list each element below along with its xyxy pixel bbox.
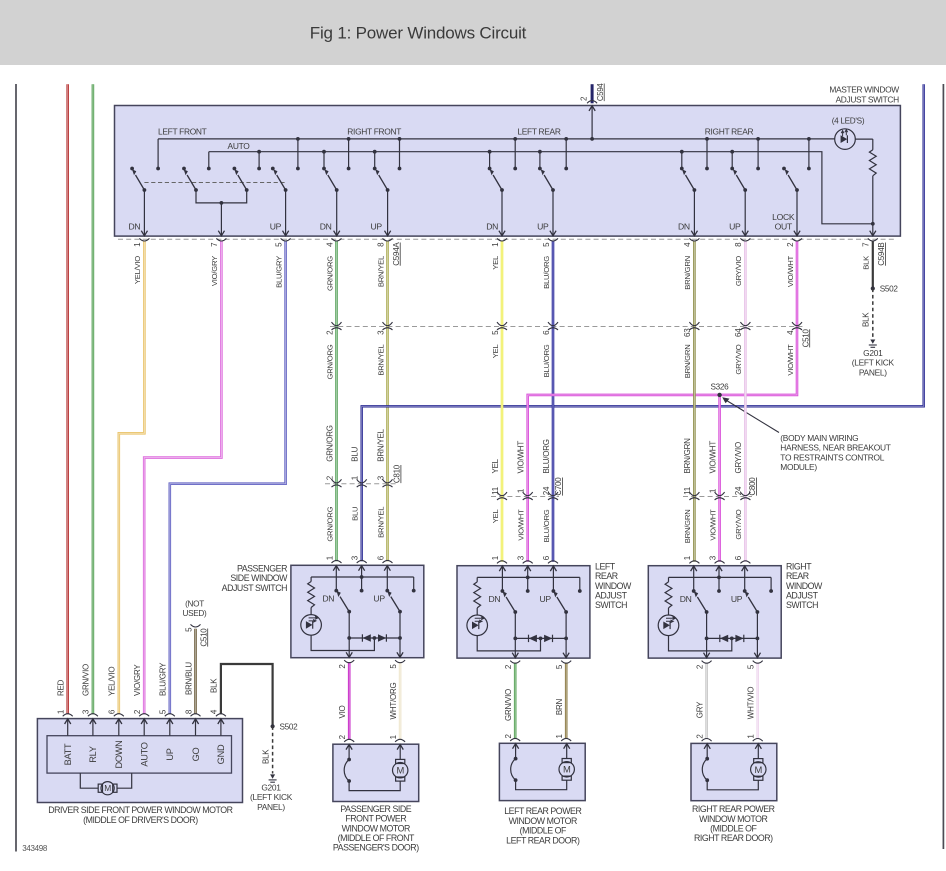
svg-text:2: 2 <box>695 734 704 739</box>
svg-text:6: 6 <box>108 709 117 714</box>
svg-text:6: 6 <box>542 330 551 335</box>
driver motor inner module box <box>47 736 232 773</box>
right rear power window motor box <box>691 743 777 800</box>
contact stub from AUTO bus at x=374.7 <box>374 152 376 169</box>
svg-text:UP: UP <box>270 221 282 231</box>
svg-text:24: 24 <box>542 486 551 495</box>
svg-text:2: 2 <box>504 664 513 669</box>
contact stub from feed bus at x=515.2 <box>514 139 516 169</box>
svg-text:C510: C510 <box>199 628 208 647</box>
switch UP <box>553 591 568 614</box>
callout arrow to S326 <box>726 400 779 433</box>
connector C594 dashed row <box>118 238 897 240</box>
splice S326 <box>717 393 721 397</box>
svg-text:PASSENGER: PASSENGER <box>237 564 287 574</box>
pin 1 lead <box>566 743 568 758</box>
wire 2 C594 feed entry <box>591 84 594 103</box>
svg-text:C810: C810 <box>393 464 402 483</box>
pin 6 contact <box>744 566 746 591</box>
contact stub from AUTO bus at x=489.6 <box>489 152 491 169</box>
svg-text:S326: S326 <box>710 383 729 392</box>
svg-text:LEFT REAR: LEFT REAR <box>517 126 560 136</box>
svg-text:11: 11 <box>683 486 692 495</box>
driver motor M symbol <box>80 773 98 788</box>
svg-text:BRN/YEL: BRN/YEL <box>376 506 385 538</box>
contact stub from feed bus at x=348.6 <box>348 139 350 169</box>
diode left <box>363 634 371 641</box>
svg-text:ADJUST: ADJUST <box>786 591 819 601</box>
svg-text:BLU: BLU <box>351 446 360 461</box>
svg-text:YEL/VIO: YEL/VIO <box>133 256 142 284</box>
svg-text:DOWN: DOWN <box>114 740 124 768</box>
wire BLK dashed to ground G201 <box>872 289 874 339</box>
svg-text:BRN/GRN: BRN/GRN <box>683 438 692 474</box>
left rear window adjust switch box <box>457 566 590 658</box>
svg-text:(NOT: (NOT <box>185 600 204 609</box>
svg-text:1: 1 <box>491 242 500 247</box>
wire AUTO levers common output <box>196 190 247 203</box>
switch left front DN <box>132 169 148 236</box>
open contact at x=272.8 <box>271 167 275 171</box>
motor M <box>562 759 571 763</box>
passenger side front power window motor box <box>333 744 419 801</box>
connector C700 dashed row <box>491 496 559 498</box>
svg-text:ADJUST: ADJUST <box>595 591 628 601</box>
wire VIO/WHT splice S326 branch to right rear switch pin3 <box>718 395 721 562</box>
driver motor pin AUTO <box>143 719 145 736</box>
svg-text:PANEL): PANEL) <box>257 802 285 812</box>
svg-text:WINDOW MOTOR: WINDOW MOTOR <box>509 816 577 826</box>
svg-text:1: 1 <box>389 734 398 739</box>
svg-text:HARNESS, NEAR BREAKOUT: HARNESS, NEAR BREAKOUT <box>780 443 890 453</box>
svg-text:VIO/GRY: VIO/GRY <box>210 256 219 286</box>
svg-text:1: 1 <box>683 555 692 560</box>
diode left <box>720 635 728 642</box>
svg-text:(MIDDLE OF FRONT: (MIDDLE OF FRONT <box>338 833 415 843</box>
contact stub from feed bus at x=808.9 <box>808 139 810 169</box>
contact stub from AUTO bus at x=539.9 <box>539 152 541 169</box>
splice S502 (master) <box>871 286 875 290</box>
svg-text:BLK: BLK <box>261 749 270 764</box>
switch right rear DN <box>682 169 698 236</box>
open contact at x=784 <box>782 167 786 171</box>
driver motor pin RLY <box>92 719 94 736</box>
svg-text:UP: UP <box>729 221 741 231</box>
driver motor pin DOWN <box>118 719 120 736</box>
LED return to diode midpoint <box>311 635 374 650</box>
pin 2 lead and brush arc <box>706 743 708 758</box>
svg-text:4: 4 <box>210 709 219 714</box>
svg-text:2: 2 <box>325 475 334 480</box>
svg-text:3: 3 <box>82 709 91 714</box>
svg-text:VIO/GRY: VIO/GRY <box>133 664 142 696</box>
contact stub from feed bus at x=566.2 <box>565 139 567 169</box>
svg-text:RED: RED <box>57 679 66 696</box>
svg-text:YEL: YEL <box>491 458 500 473</box>
svg-text:(LEFT KICK: (LEFT KICK <box>250 792 293 802</box>
svg-text:M: M <box>563 764 571 775</box>
wire BLK master pin7 to splice S502 <box>872 241 874 289</box>
svg-text:REAR: REAR <box>595 571 618 581</box>
wire VIO/WHT master pin2 through S326 to left rear switch pin3 <box>528 241 797 562</box>
bus AUTO <box>209 152 873 224</box>
pin 5 output <box>756 612 758 658</box>
svg-text:(MIDDLE OF: (MIDDLE OF <box>520 826 567 836</box>
LED return to diode midpoint <box>669 636 732 651</box>
svg-text:4: 4 <box>786 330 795 335</box>
svg-text:1: 1 <box>747 734 756 739</box>
svg-text:YEL/VIO: YEL/VIO <box>108 667 117 696</box>
pin 3 common <box>361 565 363 590</box>
svg-text:G201: G201 <box>863 348 883 358</box>
header band <box>0 0 946 65</box>
ground G201 (left kick panel) <box>870 340 875 344</box>
internal common bus <box>311 576 414 578</box>
wire BLU passenger switch pin3 loop to master area <box>362 84 924 561</box>
svg-text:GRN/ORG: GRN/ORG <box>325 506 334 541</box>
wire BRN/GRN master pin4 to right rear switch pin1 <box>693 241 696 562</box>
wire BRN left rear switch pin5 to motor pin1 <box>565 663 568 739</box>
contact stub from AUTO bus at x=324 <box>323 152 325 169</box>
svg-text:2: 2 <box>338 664 347 669</box>
svg-text:G201: G201 <box>261 783 281 793</box>
pin 2 lead and brush arc <box>515 743 517 758</box>
svg-text:VIO/WHT: VIO/WHT <box>708 441 717 474</box>
switch left front UP <box>273 169 289 236</box>
switch DN <box>503 591 518 614</box>
svg-text:YEL: YEL <box>491 344 500 359</box>
diode right <box>378 634 386 641</box>
svg-text:5: 5 <box>389 664 398 669</box>
wire VIO passenger switch pin2 to motor pin2 <box>348 662 351 740</box>
wire RED battery feed <box>66 84 69 714</box>
svg-text:WHT/VIO: WHT/VIO <box>747 687 756 719</box>
open contact at x=132.1 <box>130 167 134 171</box>
svg-text:VIO/WHT: VIO/WHT <box>517 441 526 474</box>
svg-text:2: 2 <box>504 734 513 739</box>
diode row <box>515 637 566 639</box>
svg-text:GRY/VIO: GRY/VIO <box>734 256 743 286</box>
svg-text:OUT: OUT <box>775 221 793 231</box>
wire BRN/YEL master pin8 to passenger switch pin6 <box>386 241 389 561</box>
svg-text:GRN/ORG: GRN/ORG <box>325 425 334 462</box>
svg-text:VIO/WHT: VIO/WHT <box>786 344 795 376</box>
pin 1 contact <box>693 566 695 591</box>
svg-text:BRN/YEL: BRN/YEL <box>376 428 385 461</box>
switch left rear UP <box>541 169 557 236</box>
svg-text:1: 1 <box>351 475 360 480</box>
svg-text:S502: S502 <box>280 722 299 731</box>
svg-text:1: 1 <box>517 488 526 493</box>
connector C800 dashed row <box>683 496 752 498</box>
svg-text:7: 7 <box>862 242 871 247</box>
pin 1 contact <box>501 566 503 591</box>
pin 1 lead <box>757 743 759 758</box>
pin 6 contact <box>552 566 554 591</box>
svg-text:DN: DN <box>322 594 334 604</box>
svg-text:BRN/GRN: BRN/GRN <box>683 256 692 290</box>
svg-text:6: 6 <box>734 555 743 560</box>
svg-text:MASTER WINDOW: MASTER WINDOW <box>829 85 899 95</box>
pin 2 lead and brush arc <box>348 744 350 759</box>
svg-text:RIGHT REAR POWER: RIGHT REAR POWER <box>692 804 775 814</box>
svg-text:(MIDDLE OF: (MIDDLE OF <box>710 824 757 834</box>
svg-text:SIDE WINDOW: SIDE WINDOW <box>230 573 288 583</box>
contact stub from feed bus at x=399.5 <box>399 139 401 169</box>
internal common bus <box>669 576 772 578</box>
wire VIO/GRY master pin7 to driver motor pin2 <box>144 241 221 714</box>
svg-text:TO RESTRAINTS CONTROL: TO RESTRAINTS CONTROL <box>780 452 884 462</box>
svg-text:LEFT REAR POWER: LEFT REAR POWER <box>504 806 581 816</box>
svg-text:RIGHT: RIGHT <box>786 561 812 571</box>
svg-text:UP: UP <box>165 748 175 760</box>
LED indicator (4 LEDs) <box>835 129 856 150</box>
svg-text:BLK: BLK <box>210 678 219 693</box>
pin 6 contact <box>386 565 388 590</box>
svg-text:2: 2 <box>325 330 334 335</box>
resistor <box>668 577 670 582</box>
passenger side window adjust switch box <box>291 565 424 657</box>
svg-text:BRN/YEL: BRN/YEL <box>376 255 385 287</box>
LED <box>476 608 478 615</box>
svg-text:7: 7 <box>210 242 219 247</box>
driver motor pin GO <box>195 719 197 736</box>
LED <box>668 608 670 615</box>
diode row <box>349 637 400 639</box>
svg-text:C594: C594 <box>596 83 605 102</box>
svg-text:REAR: REAR <box>786 571 809 581</box>
wire YEL/VIO master pin1 to driver motor pin6 <box>119 241 145 714</box>
right rear window adjust switch box <box>648 566 781 658</box>
ground G201 (left kick panel) driver <box>270 774 275 778</box>
svg-text:3: 3 <box>351 555 360 560</box>
svg-text:3: 3 <box>376 475 385 480</box>
mechanical link dashes left front <box>144 182 285 184</box>
svg-text:C594B: C594B <box>877 243 886 266</box>
svg-text:3: 3 <box>517 555 526 560</box>
wire YEL master pin1 to left rear switch pin1 <box>501 241 504 562</box>
svg-text:VIO/WHT: VIO/WHT <box>786 255 795 287</box>
wire GRY/VIO master pin8 to right rear switch pin6 <box>744 241 747 562</box>
svg-text:GRN/ORG: GRN/ORG <box>325 256 334 291</box>
svg-text:(4 LED'S): (4 LED'S) <box>832 116 865 125</box>
switch UP <box>745 591 760 614</box>
open contact at x=184 <box>182 167 186 171</box>
svg-text:(LEFT KICK: (LEFT KICK <box>852 358 895 368</box>
svg-text:GRY: GRY <box>695 701 704 718</box>
svg-text:1: 1 <box>325 555 334 560</box>
motor M <box>396 759 405 763</box>
svg-text:UP: UP <box>540 594 552 604</box>
wire GRN/ORG master pin4 to passenger switch pin1 <box>335 241 338 561</box>
svg-text:UP: UP <box>537 221 549 231</box>
svg-text:5: 5 <box>542 242 551 247</box>
svg-text:2: 2 <box>695 664 704 669</box>
svg-text:BRN/GRN: BRN/GRN <box>683 345 692 379</box>
svg-text:DN: DN <box>678 221 690 231</box>
svg-text:5: 5 <box>555 664 564 669</box>
svg-text:BRN: BRN <box>555 698 564 715</box>
svg-text:RIGHT REAR DOOR): RIGHT REAR DOOR) <box>694 833 773 843</box>
LED <box>310 608 312 615</box>
svg-text:YEL: YEL <box>491 509 500 524</box>
svg-text:GRN/ORG: GRN/ORG <box>325 344 334 379</box>
svg-text:DN: DN <box>680 594 692 604</box>
svg-text:PANEL): PANEL) <box>859 367 887 377</box>
contact stub from feed bus at x=758.1 <box>757 139 759 169</box>
svg-text:5: 5 <box>159 709 168 714</box>
svg-text:VIO/WHT: VIO/WHT <box>517 509 526 541</box>
svg-text:VIO/WHT: VIO/WHT <box>708 509 717 541</box>
wire GRY right rear switch pin2 to motor pin2 <box>705 663 708 739</box>
switch UP <box>387 591 402 614</box>
contact stub from feed bus at x=707 <box>706 139 708 169</box>
switch left front AUTO down lever <box>184 169 198 192</box>
switch DN <box>694 591 709 614</box>
svg-text:1: 1 <box>57 709 66 714</box>
svg-text:5: 5 <box>491 330 500 335</box>
pin 2 output <box>348 612 350 658</box>
svg-text:Fig 1: Power Windows Circuit: Fig 1: Power Windows Circuit <box>310 24 527 43</box>
svg-text:C700: C700 <box>554 477 563 496</box>
switch right front UP <box>375 169 391 236</box>
svg-text:C510: C510 <box>801 328 810 347</box>
svg-text:4: 4 <box>683 242 692 247</box>
svg-text:WINDOW MOTOR: WINDOW MOTOR <box>699 814 767 824</box>
svg-text:DRIVER SIDE FRONT POWER WINDOW: DRIVER SIDE FRONT POWER WINDOW MOTOR <box>48 805 232 815</box>
svg-text:GRN/VIO: GRN/VIO <box>82 664 91 696</box>
splice S502 (driver) <box>271 724 275 728</box>
svg-text:(MIDDLE OF DRIVER'S DOOR): (MIDDLE OF DRIVER'S DOOR) <box>83 815 198 825</box>
svg-text:BLU/GRY: BLU/GRY <box>274 256 283 288</box>
svg-text:LEFT: LEFT <box>595 561 616 571</box>
svg-text:6: 6 <box>376 555 385 560</box>
driver motor pin GND <box>220 719 222 736</box>
svg-text:M: M <box>755 764 763 775</box>
contact stub from feed bus at x=297.9 <box>297 139 299 169</box>
wire top feed bus <box>158 138 835 140</box>
svg-text:DN: DN <box>320 221 332 231</box>
svg-text:C594A: C594A <box>392 242 401 266</box>
svg-text:BLU/GRY: BLU/GRY <box>159 662 168 696</box>
connector C810 dashed row <box>325 483 397 485</box>
svg-text:GND: GND <box>216 744 226 764</box>
svg-text:WHT/ORG: WHT/ORG <box>389 683 398 720</box>
contact stub from AUTO bus at x=681.8 <box>681 152 683 169</box>
resistor for LED chain <box>855 138 872 140</box>
svg-text:WINDOW: WINDOW <box>595 581 632 591</box>
connector C510 dashed row <box>330 326 803 328</box>
svg-text:FRONT POWER: FRONT POWER <box>345 814 406 824</box>
svg-text:VIO: VIO <box>338 705 347 718</box>
pin 3 common <box>718 566 720 591</box>
svg-text:RIGHT REAR: RIGHT REAR <box>705 126 754 136</box>
pin 2 output <box>706 612 708 658</box>
svg-text:M: M <box>396 765 404 776</box>
switch left rear DN <box>490 169 506 236</box>
pin 5 output <box>565 612 567 658</box>
svg-text:GRN/VIO: GRN/VIO <box>504 689 513 721</box>
diode left <box>529 635 537 642</box>
svg-text:2: 2 <box>786 242 795 247</box>
svg-text:1: 1 <box>133 242 142 247</box>
svg-text:USED): USED) <box>183 609 208 618</box>
svg-text:GO: GO <box>191 748 201 762</box>
svg-text:GRY/VIO: GRY/VIO <box>734 442 743 473</box>
diode right <box>735 635 743 642</box>
svg-text:LEFT FRONT: LEFT FRONT <box>158 126 207 136</box>
svg-text:RIGHT FRONT: RIGHT FRONT <box>347 126 401 136</box>
svg-text:2: 2 <box>338 734 347 739</box>
resistor <box>310 577 312 582</box>
svg-text:UP: UP <box>731 594 743 604</box>
contact stub from AUTO bus at x=259.1 <box>258 152 260 169</box>
svg-text:BRN/BLU: BRN/BLU <box>184 662 193 695</box>
svg-text:S502: S502 <box>880 285 899 294</box>
svg-text:GRY/VIO: GRY/VIO <box>734 509 743 539</box>
svg-text:RLY: RLY <box>88 746 98 763</box>
svg-text:LEFT REAR DOOR): LEFT REAR DOOR) <box>506 835 580 845</box>
wire WHT/ORG passenger switch pin5 to motor pin1 <box>399 662 402 740</box>
svg-text:WINDOW: WINDOW <box>786 581 823 591</box>
svg-text:BLU: BLU <box>351 507 360 521</box>
svg-text:5: 5 <box>274 242 283 247</box>
motor M <box>754 759 763 763</box>
svg-text:DN: DN <box>488 594 500 604</box>
svg-text:BLU/ORG: BLU/ORG <box>542 256 551 289</box>
wire GRN/VIO left rear switch pin2 to motor pin2 <box>514 663 517 739</box>
pin 5 output <box>399 612 401 658</box>
open contact at x=234.4 <box>233 167 237 171</box>
switch left front AUTO up lever <box>234 169 248 192</box>
svg-text:ADJUST SWITCH: ADJUST SWITCH <box>836 95 900 105</box>
LED return to diode midpoint <box>477 636 540 651</box>
resistor <box>476 577 478 582</box>
frame left border <box>15 84 17 852</box>
pin 2 output <box>514 612 516 658</box>
svg-text:DN: DN <box>486 221 498 231</box>
switch lock out <box>785 169 801 236</box>
svg-text:LOCK: LOCK <box>772 212 795 222</box>
svg-text:2: 2 <box>133 709 142 714</box>
master window adjust switch box <box>115 106 901 237</box>
svg-text:BLU/ORG: BLU/ORG <box>542 344 551 377</box>
frame right border <box>942 84 944 849</box>
wire BLK dashed to ground <box>272 726 274 773</box>
svg-text:BLU/ORG: BLU/ORG <box>542 439 551 473</box>
contact stub from AUTO bus at x=732.2 <box>731 152 733 169</box>
diode right <box>544 635 552 642</box>
svg-text:BLK: BLK <box>862 255 871 270</box>
switch DN <box>336 591 351 614</box>
svg-text:5: 5 <box>747 664 756 669</box>
wire BLK driver motor pin4 to splice S502 <box>221 664 273 726</box>
svg-text:SWITCH: SWITCH <box>786 600 818 610</box>
svg-text:PASSENGER'S DOOR): PASSENGER'S DOOR) <box>333 843 419 853</box>
svg-text:8: 8 <box>376 242 385 247</box>
svg-text:BRN/YEL: BRN/YEL <box>376 344 385 376</box>
svg-text:63: 63 <box>683 328 692 337</box>
wire WHT/VIO right rear switch pin5 to motor pin1 <box>756 663 759 739</box>
wire BLU/GRY master pin5 to driver motor pin5 <box>170 241 286 714</box>
svg-text:4: 4 <box>325 242 334 247</box>
svg-text:3: 3 <box>376 330 385 335</box>
svg-text:WINDOW MOTOR: WINDOW MOTOR <box>342 823 410 833</box>
switch right rear UP <box>733 169 749 236</box>
svg-text:BLU/ORG: BLU/ORG <box>542 509 551 542</box>
wire LED chain to pin 7 <box>872 224 874 236</box>
svg-text:AUTO: AUTO <box>140 742 150 766</box>
